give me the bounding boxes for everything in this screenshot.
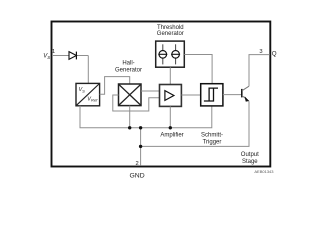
- svg-text:VS: VS: [79, 87, 86, 93]
- wire threshold right to schmitt top: [184, 55, 212, 84]
- transistor Q1 npn: [242, 86, 249, 101]
- threshold generator box: [156, 41, 185, 67]
- svg-text:Generator: Generator: [157, 31, 184, 37]
- svg-text:1: 1: [52, 49, 55, 55]
- svg-text:VS: VS: [43, 54, 50, 60]
- wire emitter to ground line: [141, 101, 249, 146]
- wire regulator bottom to ground rail: [80, 106, 212, 128]
- wire collector to Q pin3: [249, 55, 270, 87]
- svg-text:GND: GND: [130, 173, 145, 180]
- junction dot hall/rail: [128, 126, 131, 129]
- wire hall left pin loop to amplifier lower input: [113, 95, 160, 111]
- svg-text:Generator: Generator: [115, 67, 142, 73]
- wire VS pin1 horizontal: [52, 55, 88, 57]
- junction dot gnd/rail: [139, 126, 142, 129]
- diode D1: [69, 52, 76, 60]
- Hall generator X1: [119, 84, 142, 106]
- wire VS corner down to regulator: [87, 56, 89, 84]
- svg-text:AEB01343: AEB01343: [254, 169, 274, 174]
- svg-text:Hall-: Hall-: [122, 60, 134, 66]
- wire hall bottom pin to ground rail: [129, 106, 131, 128]
- svg-text:Output: Output: [241, 152, 259, 158]
- amplifier A1: [160, 85, 182, 107]
- wire threshold bottom to amplifier top: [169, 67, 171, 84]
- junction dot emitter/gnd: [139, 145, 142, 148]
- wire hall right pin to amplifier upper input: [141, 90, 160, 92]
- svg-text:VRef: VRef: [87, 96, 98, 102]
- IC outline border: [52, 22, 271, 167]
- svg-text:Schmitt-: Schmitt-: [201, 133, 223, 139]
- wire schmitt output to transistor base: [223, 94, 242, 96]
- wire amplifier bottom to ground rail: [169, 106, 171, 127]
- svg-text:Q: Q: [272, 50, 277, 57]
- voltage regulator U1 VS/VRef: [76, 83, 100, 105]
- svg-text:Trigger: Trigger: [203, 139, 222, 145]
- svg-text:Amplifier: Amplifier: [160, 132, 183, 138]
- svg-text:Stage: Stage: [242, 159, 258, 165]
- svg-text:2: 2: [135, 161, 138, 167]
- schmitt trigger box: [201, 84, 223, 106]
- junction dot amplifier/rail: [169, 126, 172, 129]
- wire amplifier output to schmitt input: [181, 94, 200, 96]
- wire regulator VRef output to hall top: [100, 77, 130, 95]
- wire ground rail down to GND pin2: [140, 128, 142, 166]
- svg-text:3: 3: [259, 49, 262, 55]
